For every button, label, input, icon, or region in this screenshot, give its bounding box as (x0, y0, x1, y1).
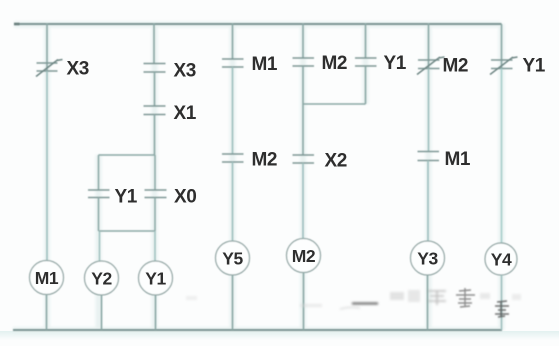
coil Y2 (85, 261, 119, 295)
svg-text:M1: M1 (35, 268, 59, 288)
contact M1 (NO) rung3 (222, 59, 244, 67)
wire rung3 upper (232, 23, 234, 59)
wire rung3 to coil Y5 (232, 162, 234, 241)
coil Y1 (139, 261, 173, 295)
branch top horizontal (99, 154, 156, 156)
svg-text:M2: M2 (443, 56, 469, 77)
wire rung6 mid (428, 69, 430, 152)
NC slash rung1 (36, 60, 63, 77)
wire rung4 mid (302, 104, 304, 155)
wire coil M2 to bottom rail (303, 273, 305, 331)
wire rung6 upper (428, 23, 430, 69)
wire rung7 upper (501, 24, 503, 69)
wire rung4 upper (302, 23, 304, 58)
coil Y3 (411, 241, 445, 275)
svg-text:X1: X1 (174, 103, 197, 124)
contact Y1 (NC) rung7 (491, 60, 513, 69)
svg-text:Y2: Y2 (91, 269, 112, 289)
wire coil Y4 to bottom rail (501, 275, 503, 330)
wire rung5 upper (365, 23, 367, 58)
coil Y4 (485, 243, 517, 275)
contact M2 (NO) rung3 (222, 154, 244, 162)
branch left wire upper (98, 155, 100, 190)
wire rung2 upper (153, 23, 155, 64)
wire rung4 to coil M2 (302, 163, 304, 239)
NC slash rung6 (417, 57, 445, 75)
contact X3 (NO) rung2 (144, 64, 166, 73)
wire coil Y1 to bottom rail (155, 295, 157, 330)
bottom power rail (13, 329, 502, 331)
svg-text:Y1: Y1 (523, 56, 546, 77)
svg-text:Y5: Y5 (222, 249, 243, 269)
contact X2 (NO) rung4 (293, 155, 315, 163)
wire merge to coil Y2 (99, 231, 101, 262)
wire rung1 lower (46, 71, 48, 261)
wire coil M1 to bottom rail (46, 295, 48, 331)
wire rung3 mid (232, 67, 234, 154)
contact M2 (NC) rung6 (418, 60, 440, 69)
wire coil Y2 to bottom rail (101, 295, 103, 330)
svg-text:X0: X0 (174, 187, 196, 208)
branch right wire upper (154, 155, 156, 190)
coil M2 (287, 239, 321, 273)
svg-text:X3: X3 (174, 61, 196, 82)
contact M1 (NO) rung6 (418, 152, 440, 161)
svg-text:M1: M1 (445, 149, 471, 170)
top rail dark start cap (14, 23, 20, 26)
watermark glyph smudges (darker) (456, 288, 509, 317)
contact X1 (NO) rung2 (144, 106, 166, 115)
wire rung2 to branch (154, 115, 156, 156)
contact Y1 (NO) branch (88, 190, 110, 198)
svg-text:X2: X2 (325, 151, 347, 172)
svg-text:Y1: Y1 (384, 53, 407, 74)
coil Y5 (216, 241, 250, 275)
merge horizontal rung4/5 (303, 103, 366, 105)
wire rung6 to coil Y3 (427, 161, 429, 242)
wire rung5 to merge (365, 66, 367, 104)
svg-text:Y1: Y1 (145, 269, 166, 289)
branch right wire lower (154, 198, 156, 232)
contact Y1 (NO) rung5 (355, 58, 377, 66)
watermark smudges bottom right (186, 290, 521, 309)
svg-text:Y1: Y1 (115, 187, 138, 208)
NC slash rung7 (490, 57, 518, 75)
svg-text:M2: M2 (292, 246, 316, 266)
wire rung4 to merge (302, 66, 304, 104)
svg-text:X3: X3 (67, 59, 89, 80)
wire coil Y3 to bottom rail (427, 275, 429, 330)
wire rung7 to coil Y4 (501, 69, 503, 244)
wire coil Y5 to bottom rail (232, 275, 234, 330)
svg-text:M2: M2 (322, 53, 348, 74)
svg-text:Y3: Y3 (417, 249, 438, 269)
faint cyan tint below bottom rail (0, 331, 559, 340)
wire merge to coil Y1 (154, 231, 156, 262)
contact M2 (NO) rung4 (293, 58, 315, 66)
top power rail (14, 23, 502, 25)
svg-text:Y4: Y4 (491, 250, 512, 270)
branch left wire lower (98, 198, 100, 232)
wire rung2 mid (154, 72, 156, 106)
svg-text:M1: M1 (252, 54, 278, 75)
svg-text:M2: M2 (252, 150, 278, 171)
soft cyan halos along rails and rungs (13, 24, 502, 330)
contact X3 (NC) rung1 (37, 63, 58, 71)
coil M1 (30, 261, 64, 295)
contact X0 (NO) branch (145, 190, 167, 198)
branch merge horizontal (99, 230, 156, 232)
wire rung1 upper (46, 23, 48, 72)
